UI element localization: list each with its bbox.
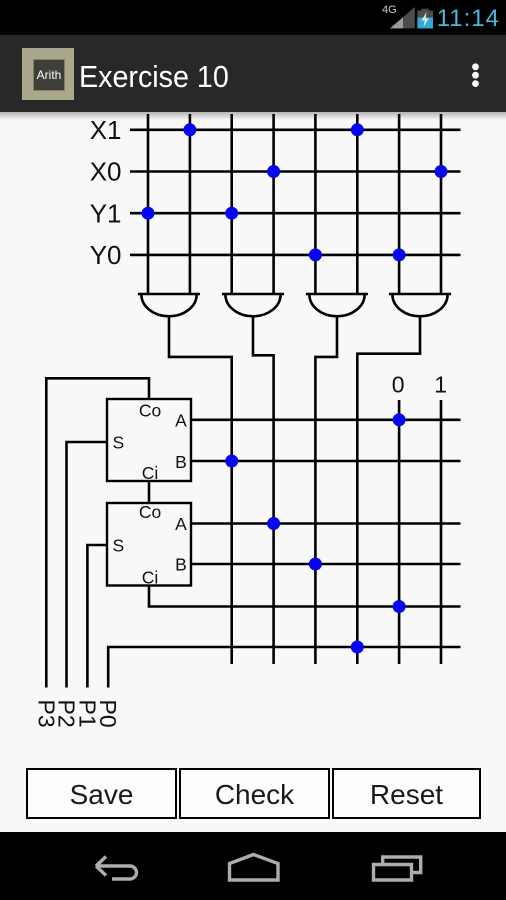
svg-text:P0: P0 [95,700,121,728]
svg-text:X0: X0 [90,157,122,187]
svg-text:B: B [175,452,187,472]
svg-text:A: A [175,411,187,431]
svg-text:B: B [175,555,187,575]
svg-text:1: 1 [434,372,447,398]
svg-text:Y0: Y0 [90,240,122,270]
svg-text:X1: X1 [90,115,122,145]
svg-text:Y1: Y1 [90,198,122,228]
svg-text:Co: Co [139,502,161,522]
svg-text:Co: Co [139,400,161,420]
svg-text:Ci: Ci [142,567,159,587]
svg-text:Ci: Ci [142,463,159,483]
svg-text:A: A [175,514,187,534]
svg-text:0: 0 [392,372,405,398]
svg-text:S: S [112,433,124,453]
svg-text:S: S [112,536,124,556]
